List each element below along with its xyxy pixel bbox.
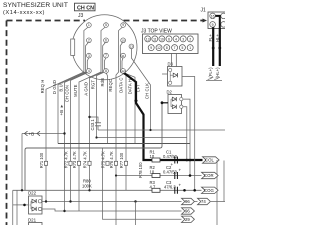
svg-text:D GND: D GND [52, 80, 57, 94]
COL continuation down [216, 160, 218, 225]
dashed unit border top-left segment [7, 20, 86, 22]
svg-text:A GND: A GND [83, 82, 88, 96]
COG row: resistor R3 [150, 180, 161, 192]
D2 node dot [161, 101, 164, 104]
svg-text:13: 13 [130, 45, 134, 49]
resistor R73 4.7K [72, 151, 81, 168]
+B net horizontal wire [22, 133, 65, 135]
svg-text:REQ H: REQ H [40, 80, 45, 94]
svg-text:J1: J1 [201, 8, 207, 14]
COR row wire [116, 175, 202, 177]
tag 74 [194, 198, 225, 204]
pin 4 [87, 69, 92, 74]
resistor R76 4.7K [109, 151, 118, 168]
J3 top view box [143, 34, 199, 54]
svg-text:96: 96 [185, 199, 190, 204]
svg-text:13: 13 [146, 37, 150, 41]
svg-text:2: 2 [88, 39, 90, 43]
COL row: capacitor C1 [163, 150, 178, 168]
bottom wire row 219.3 [103, 148, 182, 219]
svg-text:DATA H: DATA H [127, 79, 132, 94]
svg-text:12: 12 [157, 46, 161, 50]
svg-text:9: 9 [212, 23, 214, 27]
wire w2 D GND from pin 2 [58, 42, 89, 144]
+B arrow tag on B.U. wire [59, 105, 64, 116]
svg-text:7: 7 [105, 54, 107, 58]
svg-text:R75 4.7K: R75 4.7K [101, 151, 106, 168]
svg-text:D21: D21 [28, 218, 37, 223]
svg-text:RdB: RdB [100, 78, 105, 87]
D22 left pin wire [13, 204, 29, 206]
svg-text:LFT: LFT [136, 84, 141, 92]
svg-text:8: 8 [105, 69, 107, 73]
D2 left pin wire to thick node [162, 102, 168, 104]
resistor R71 100 [39, 152, 48, 168]
pin 6 [104, 38, 109, 43]
pin 12 [121, 69, 126, 74]
thick wire FL- from J1 [219, 28, 221, 66]
D2 upper right wire down [183, 99, 190, 175]
pin 8 [104, 69, 109, 74]
dual diode D22 [28, 191, 42, 215]
COG row wire [13, 189, 202, 191]
dashed unit border left segment [6, 21, 8, 227]
tag 29 [182, 216, 195, 222]
COG row: capacitor C3 [164, 180, 182, 194]
J1 pin 16 [210, 13, 216, 19]
svg-text:R74 4.7K: R74 4.7K [83, 151, 88, 168]
J3 top view pins row 1 [145, 36, 194, 42]
svg-text:+: + [179, 168, 182, 173]
wire w10 DATA C from pin 10 [120, 42, 126, 191]
svg-text:11: 11 [122, 54, 125, 58]
COR junction dot [189, 174, 192, 177]
junction w13 to H1 [149, 129, 151, 131]
COR row: capacitor C2 [163, 165, 182, 179]
C43 junction dot [88, 116, 90, 118]
svg-text:D22: D22 [28, 191, 37, 196]
+B wire going down left [21, 134, 23, 191]
svg-text:J3: J3 [78, 13, 84, 19]
J3 top view pins row 2 [148, 45, 193, 51]
svg-text:8: 8 [166, 46, 168, 50]
+B down wire junction on COG row [21, 189, 23, 191]
wire w9 REQC from pin 9 [116, 27, 123, 226]
wire w11 DATA H from pin 11 [122, 57, 135, 143]
svg-text:+: + [179, 183, 182, 188]
vertical x135.5 [135, 202, 137, 226]
dashed border arrow into J1 [203, 19, 208, 23]
bus line H4 ground bus to D2 [25, 101, 162, 190]
D3 left wire to ground bus [162, 73, 168, 75]
wire w3 B.U. from pin 3 [65, 57, 89, 211]
J1 right column pins (clipped) [221, 13, 227, 27]
junction dot on row 211 [63, 210, 65, 212]
pin 7 [104, 53, 109, 58]
svg-text:D2: D2 [167, 90, 173, 95]
w6 to COG junction [88, 189, 90, 191]
svg-text:10: 10 [121, 39, 125, 43]
pin 13 [129, 44, 134, 49]
J1 pin 9 [210, 22, 216, 28]
svg-text:1: 1 [189, 46, 191, 50]
svg-text:7: 7 [174, 46, 176, 50]
svg-text:4: 4 [88, 69, 90, 73]
pin 1 [87, 23, 92, 28]
svg-text:MUTE: MUTE [73, 84, 78, 96]
junction +B to B.U. [63, 132, 65, 134]
tag 96 row1 [182, 198, 195, 204]
svg-text:COR: COR [204, 173, 214, 178]
svg-text:CH CN: CH CN [77, 5, 94, 11]
pin 5 [104, 23, 109, 28]
svg-text:4: 4 [175, 37, 177, 41]
svg-text:RGT: RGT [90, 80, 95, 90]
svg-text:HL+: HL+ [215, 34, 220, 42]
svg-text:3: 3 [88, 54, 90, 58]
svg-text:1: 1 [88, 23, 90, 27]
svg-text:R76 4.7K: R76 4.7K [109, 151, 114, 168]
svg-text:(HL+): (HL+) [215, 67, 220, 78]
CH CN label box [75, 3, 96, 11]
D3 right wire down [182, 77, 195, 191]
tag 96 row2 [182, 208, 195, 214]
svg-text:5: 5 [181, 46, 183, 50]
COL row: resistor R1 [150, 150, 161, 163]
COL output tag [203, 157, 220, 163]
D2 lower right wire down [183, 107, 187, 160]
bus line H3 thick gray [58, 143, 190, 145]
wire w7 RGT from pin 7 [97, 57, 107, 137]
COR row: resistor R2 [150, 165, 161, 178]
svg-text:0.47/50: 0.47/50 [163, 170, 178, 175]
connector J3 circle [72, 15, 137, 80]
capacitor C43 branch [90, 117, 102, 130]
svg-text:+B: +B [59, 110, 64, 116]
bottom wire row 201.5 [42, 201, 182, 203]
svg-text:16: 16 [211, 14, 215, 18]
wire w1 REQ H from pin 1 [46, 27, 89, 202]
COL right edge drop [223, 161, 225, 202]
junction dots on FL wires [212, 47, 215, 50]
pin 3 [87, 53, 92, 58]
svg-text:FL+: FL+ [208, 34, 213, 42]
wire w5 MUTE from pin 5 [79, 27, 106, 212]
COG output tag [202, 187, 219, 193]
connector key rect [71, 39, 75, 55]
pin 2 [87, 38, 92, 43]
junction w7 to H2 [95, 136, 97, 138]
J1 connector box [208, 12, 227, 29]
svg-text:29: 29 [185, 217, 190, 222]
wire w4 CH CON from pin 4 [71, 72, 89, 202]
diode D2 [167, 90, 183, 114]
svg-text:COL: COL [205, 158, 214, 163]
svg-text:2: 2 [189, 37, 191, 41]
svg-text:R77 100: R77 100 [119, 152, 124, 168]
svg-text:SYNTHESIZER UNIT: SYNTHESIZER UNIT [3, 2, 68, 9]
svg-text:3: 3 [182, 37, 184, 41]
svg-text:(FL+): (FL+) [208, 67, 213, 78]
svg-text:+B: +B [29, 131, 35, 136]
junction dots on row 201.5 [45, 200, 47, 202]
svg-text:DATA C: DATA C [118, 78, 123, 93]
resistor R75 4.7K [101, 151, 110, 168]
resistor R72 4.7K [64, 151, 73, 168]
svg-text:6: 6 [105, 39, 107, 43]
COG junction dots [183, 189, 186, 192]
COR output tag [202, 172, 219, 178]
pin 11 [121, 53, 126, 58]
left edge vertical wires [13, 190, 17, 225]
resistor R77 100 [119, 152, 128, 168]
svg-text:CH CON: CH CON [64, 85, 69, 102]
svg-text:R73 4.7K: R73 4.7K [72, 151, 77, 168]
svg-text:6: 6 [168, 37, 170, 41]
svg-text:5: 5 [105, 23, 107, 27]
svg-text:COG: COG [204, 188, 214, 193]
resistor R74 4.7K [83, 151, 92, 168]
bottom wire row 211 [42, 209, 182, 211]
svg-text:R72 4.7K: R72 4.7K [64, 151, 69, 168]
svg-text:B.U.: B.U. [58, 83, 63, 92]
junction dot COR feed [115, 174, 117, 176]
signal direction arrow on LFT wire [134, 98, 138, 102]
svg-text:(X14-xxxx-xx): (X14-xxxx-xx) [3, 10, 45, 16]
diode D3 [168, 62, 183, 87]
wire w6 A GND from pin 6 [90, 42, 107, 191]
svg-text:9: 9 [122, 23, 124, 27]
svg-text:R71 100: R71 100 [39, 152, 44, 168]
svg-text:100K: 100K [82, 184, 92, 189]
wire w13 CH CLK from pin 13 [131, 49, 150, 130]
svg-text:12: 12 [121, 69, 125, 73]
svg-text:96: 96 [185, 209, 190, 214]
bus line H2 [97, 137, 187, 139]
dashed unit border top-right segment [124, 20, 204, 22]
svg-text:9: 9 [150, 46, 152, 50]
COL junction dots [186, 159, 189, 162]
D22 left junction dot [23, 204, 26, 207]
svg-text:REQC: REQC [108, 79, 113, 92]
pin 9 [121, 23, 126, 28]
svg-text:0.47/50: 0.47/50 [163, 154, 178, 159]
thick wire FL+ from J1 [212, 27, 214, 66]
svg-text:74: 74 [201, 199, 206, 204]
svg-text:CH CLK: CH CLK [144, 83, 149, 99]
wire w8 RdB from pin 8 [106, 72, 108, 143]
+B net label with arrows [25, 131, 41, 136]
svg-text:10: 10 [160, 37, 164, 41]
svg-text:11: 11 [153, 37, 157, 41]
diode D21 box clipped [29, 223, 43, 231]
pin 10 [121, 38, 126, 43]
wire end hooks below J1 wires [206, 77, 222, 81]
thick jumper from J1 pin16 [216, 16, 220, 29]
wire w12 LFT thick from pin 12 to COL row [123, 72, 202, 160]
D3 connection stubs from J3 top view box [172, 54, 177, 67]
bus line H1 [98, 129, 225, 131]
svg-text:D3: D3 [168, 62, 174, 67]
svg-text:C43.1: C43.1 [90, 119, 95, 131]
R80 label [82, 179, 92, 189]
